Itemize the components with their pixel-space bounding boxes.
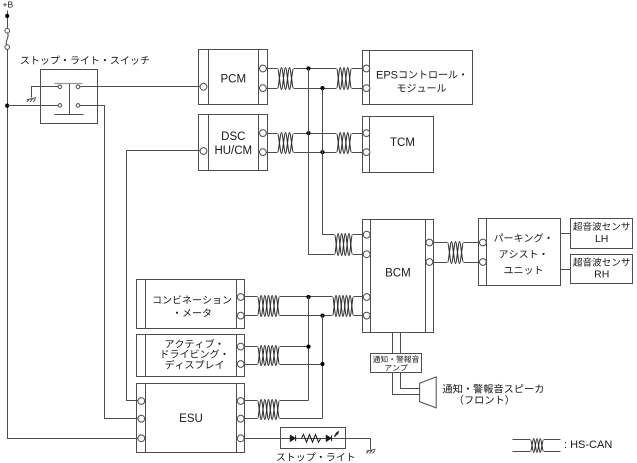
twisted pair TCM side <box>336 133 352 153</box>
stop light box <box>281 428 346 449</box>
wire CAN-H DSC to TCM <box>267 133 363 135</box>
twisted pair BCM lower <box>332 296 354 316</box>
DSC terminals <box>200 148 207 155</box>
wire CAN-L PCM to EPS <box>267 88 363 90</box>
label display line3 <box>165 360 223 369</box>
ground (switch) <box>27 98 36 102</box>
legend twisted pair <box>530 439 544 452</box>
wire CAN BCM to parking lower <box>433 262 480 264</box>
stop light diode 1 <box>290 435 295 441</box>
wire CAN combi to BCM upper <box>245 296 364 298</box>
stop light LED ray arrow <box>334 431 339 437</box>
svg-text:: HS-CAN: : HS-CAN <box>564 439 612 451</box>
label display line1 <box>166 339 221 348</box>
twisted pair EPS side <box>336 68 352 89</box>
module parking assist unit <box>479 219 561 286</box>
EPS terminals <box>363 65 370 72</box>
wire CAN-L DSC to TCM <box>267 152 363 154</box>
module ultrasonic sensor LH <box>571 219 633 249</box>
combination meter terminals <box>237 294 244 301</box>
junction dot +B <box>5 14 9 18</box>
label sensor RH line1 <box>573 258 630 267</box>
wire DSC to ESU <box>127 151 201 401</box>
wire CAN ESU lower <box>245 418 323 420</box>
legend wire lower <box>513 451 561 453</box>
wire stop light to ground <box>346 439 371 450</box>
label stop light <box>277 452 354 461</box>
wire +B feed <box>7 11 9 29</box>
ESU terminals <box>138 398 145 405</box>
label EPS line2 <box>398 84 446 92</box>
speaker (front) <box>420 377 437 408</box>
module PCM <box>199 50 268 105</box>
stop light filament <box>302 434 321 442</box>
wire amp to speaker upper <box>401 373 420 389</box>
module ESU <box>137 384 245 453</box>
module EPS control module <box>363 51 473 105</box>
junction dot bus A DSC row <box>306 131 310 135</box>
wire +B trunk to ESU <box>8 50 139 439</box>
module ultrasonic sensor RH <box>571 255 633 284</box>
PCM terminals <box>200 83 207 90</box>
wire ESU to stop light <box>245 438 281 440</box>
wire switch to PCM <box>80 86 201 88</box>
wire CAN BCM to parking upper <box>433 242 480 244</box>
svg-text:BCM: BCM <box>385 268 411 280</box>
twisted pair PCM side <box>277 68 294 89</box>
wire switch ground lead <box>32 87 59 98</box>
wire bus A lower vertical <box>308 297 310 401</box>
module active driving display <box>137 335 245 377</box>
svg-text:TCM: TCM <box>390 137 415 149</box>
BCM terminals <box>363 231 370 238</box>
svg-text:RH: RH <box>594 269 609 281</box>
label parking line1 <box>494 233 549 242</box>
junction dot CAN-L bus B <box>320 86 324 90</box>
fuse (fusible link) <box>5 28 10 49</box>
label display line2 <box>162 349 225 358</box>
switch contact bar lower <box>55 114 84 116</box>
twisted pair parking <box>447 242 464 263</box>
wire BCM to amp left <box>392 333 394 354</box>
twisted pair combi side <box>257 296 280 316</box>
label amp line1 <box>373 356 419 363</box>
module notification alarm amp <box>371 354 422 373</box>
wire amp to speaker lower <box>393 373 420 395</box>
wire CAN display upper <box>245 346 309 348</box>
wire switch to ESU <box>80 106 139 419</box>
switch plunger stem <box>69 84 71 114</box>
svg-text:EPS: EPS <box>376 70 398 82</box>
display terminals <box>237 343 244 350</box>
label combination meter line2 <box>176 308 211 317</box>
module combination meter <box>137 280 245 329</box>
wire bus B lower vertical <box>322 316 324 419</box>
wire switch feed <box>8 105 59 107</box>
module BCM <box>363 220 434 333</box>
junction dot bus B display row <box>320 362 324 366</box>
wire parking to sensor LH <box>561 233 571 235</box>
twisted pair BCM upper <box>334 234 353 255</box>
wire bus B vertical to BCM <box>323 89 364 235</box>
twisted pair ESU <box>257 400 280 419</box>
label EPS katakana <box>400 70 464 78</box>
label sensor LH line1 <box>573 222 630 231</box>
legend wire upper <box>513 439 561 441</box>
label combination meter line1 <box>154 295 232 304</box>
label amp line2 <box>385 364 407 371</box>
twisted pair DSC side <box>277 133 294 153</box>
junction dot CAN-H bus A <box>306 66 310 70</box>
svg-text:DSC: DSC <box>221 131 245 143</box>
label speaker line1 <box>443 384 543 393</box>
wire CAN ESU upper <box>245 400 309 402</box>
module DSC HU/CM <box>199 115 268 171</box>
svg-text:LH: LH <box>595 233 608 245</box>
module TCM <box>363 117 434 173</box>
label parking line3 <box>504 266 542 274</box>
ground (stop light) <box>366 449 375 453</box>
svg-text:PCM: PCM <box>221 74 247 86</box>
twisted pair display <box>257 346 280 365</box>
wire BCM to amp right <box>400 333 402 354</box>
wire bus A vertical to BCM <box>309 69 364 255</box>
label speaker line2 <box>461 395 508 405</box>
svg-text:HU/CM: HU/CM <box>214 145 252 157</box>
junction dot bus A combi row <box>306 295 310 299</box>
wire through stop light <box>281 438 346 440</box>
TCM terminals <box>363 130 370 137</box>
stop light switch box <box>41 70 98 124</box>
switch contact bar upper <box>55 83 83 85</box>
junction dot bus B combi row <box>320 314 324 318</box>
label stop light switch <box>21 56 149 65</box>
label parking line2 <box>500 250 545 258</box>
stop light diode 2 (LED) <box>326 435 331 441</box>
svg-text:ESU: ESU <box>179 413 203 425</box>
wire CAN display lower <box>245 364 323 366</box>
wire CAN combi to BCM lower <box>245 315 364 317</box>
svg-text:+B: +B <box>3 0 14 9</box>
junction dot switch feed <box>5 104 9 108</box>
parking assist terminals <box>480 239 487 246</box>
junction dot bus B DSC row <box>320 150 324 154</box>
switch terminals <box>58 85 80 107</box>
junction dot bus A display row <box>306 345 310 349</box>
wire parking to sensor RH <box>561 269 571 271</box>
wire CAN-H PCM to EPS <box>267 68 363 70</box>
